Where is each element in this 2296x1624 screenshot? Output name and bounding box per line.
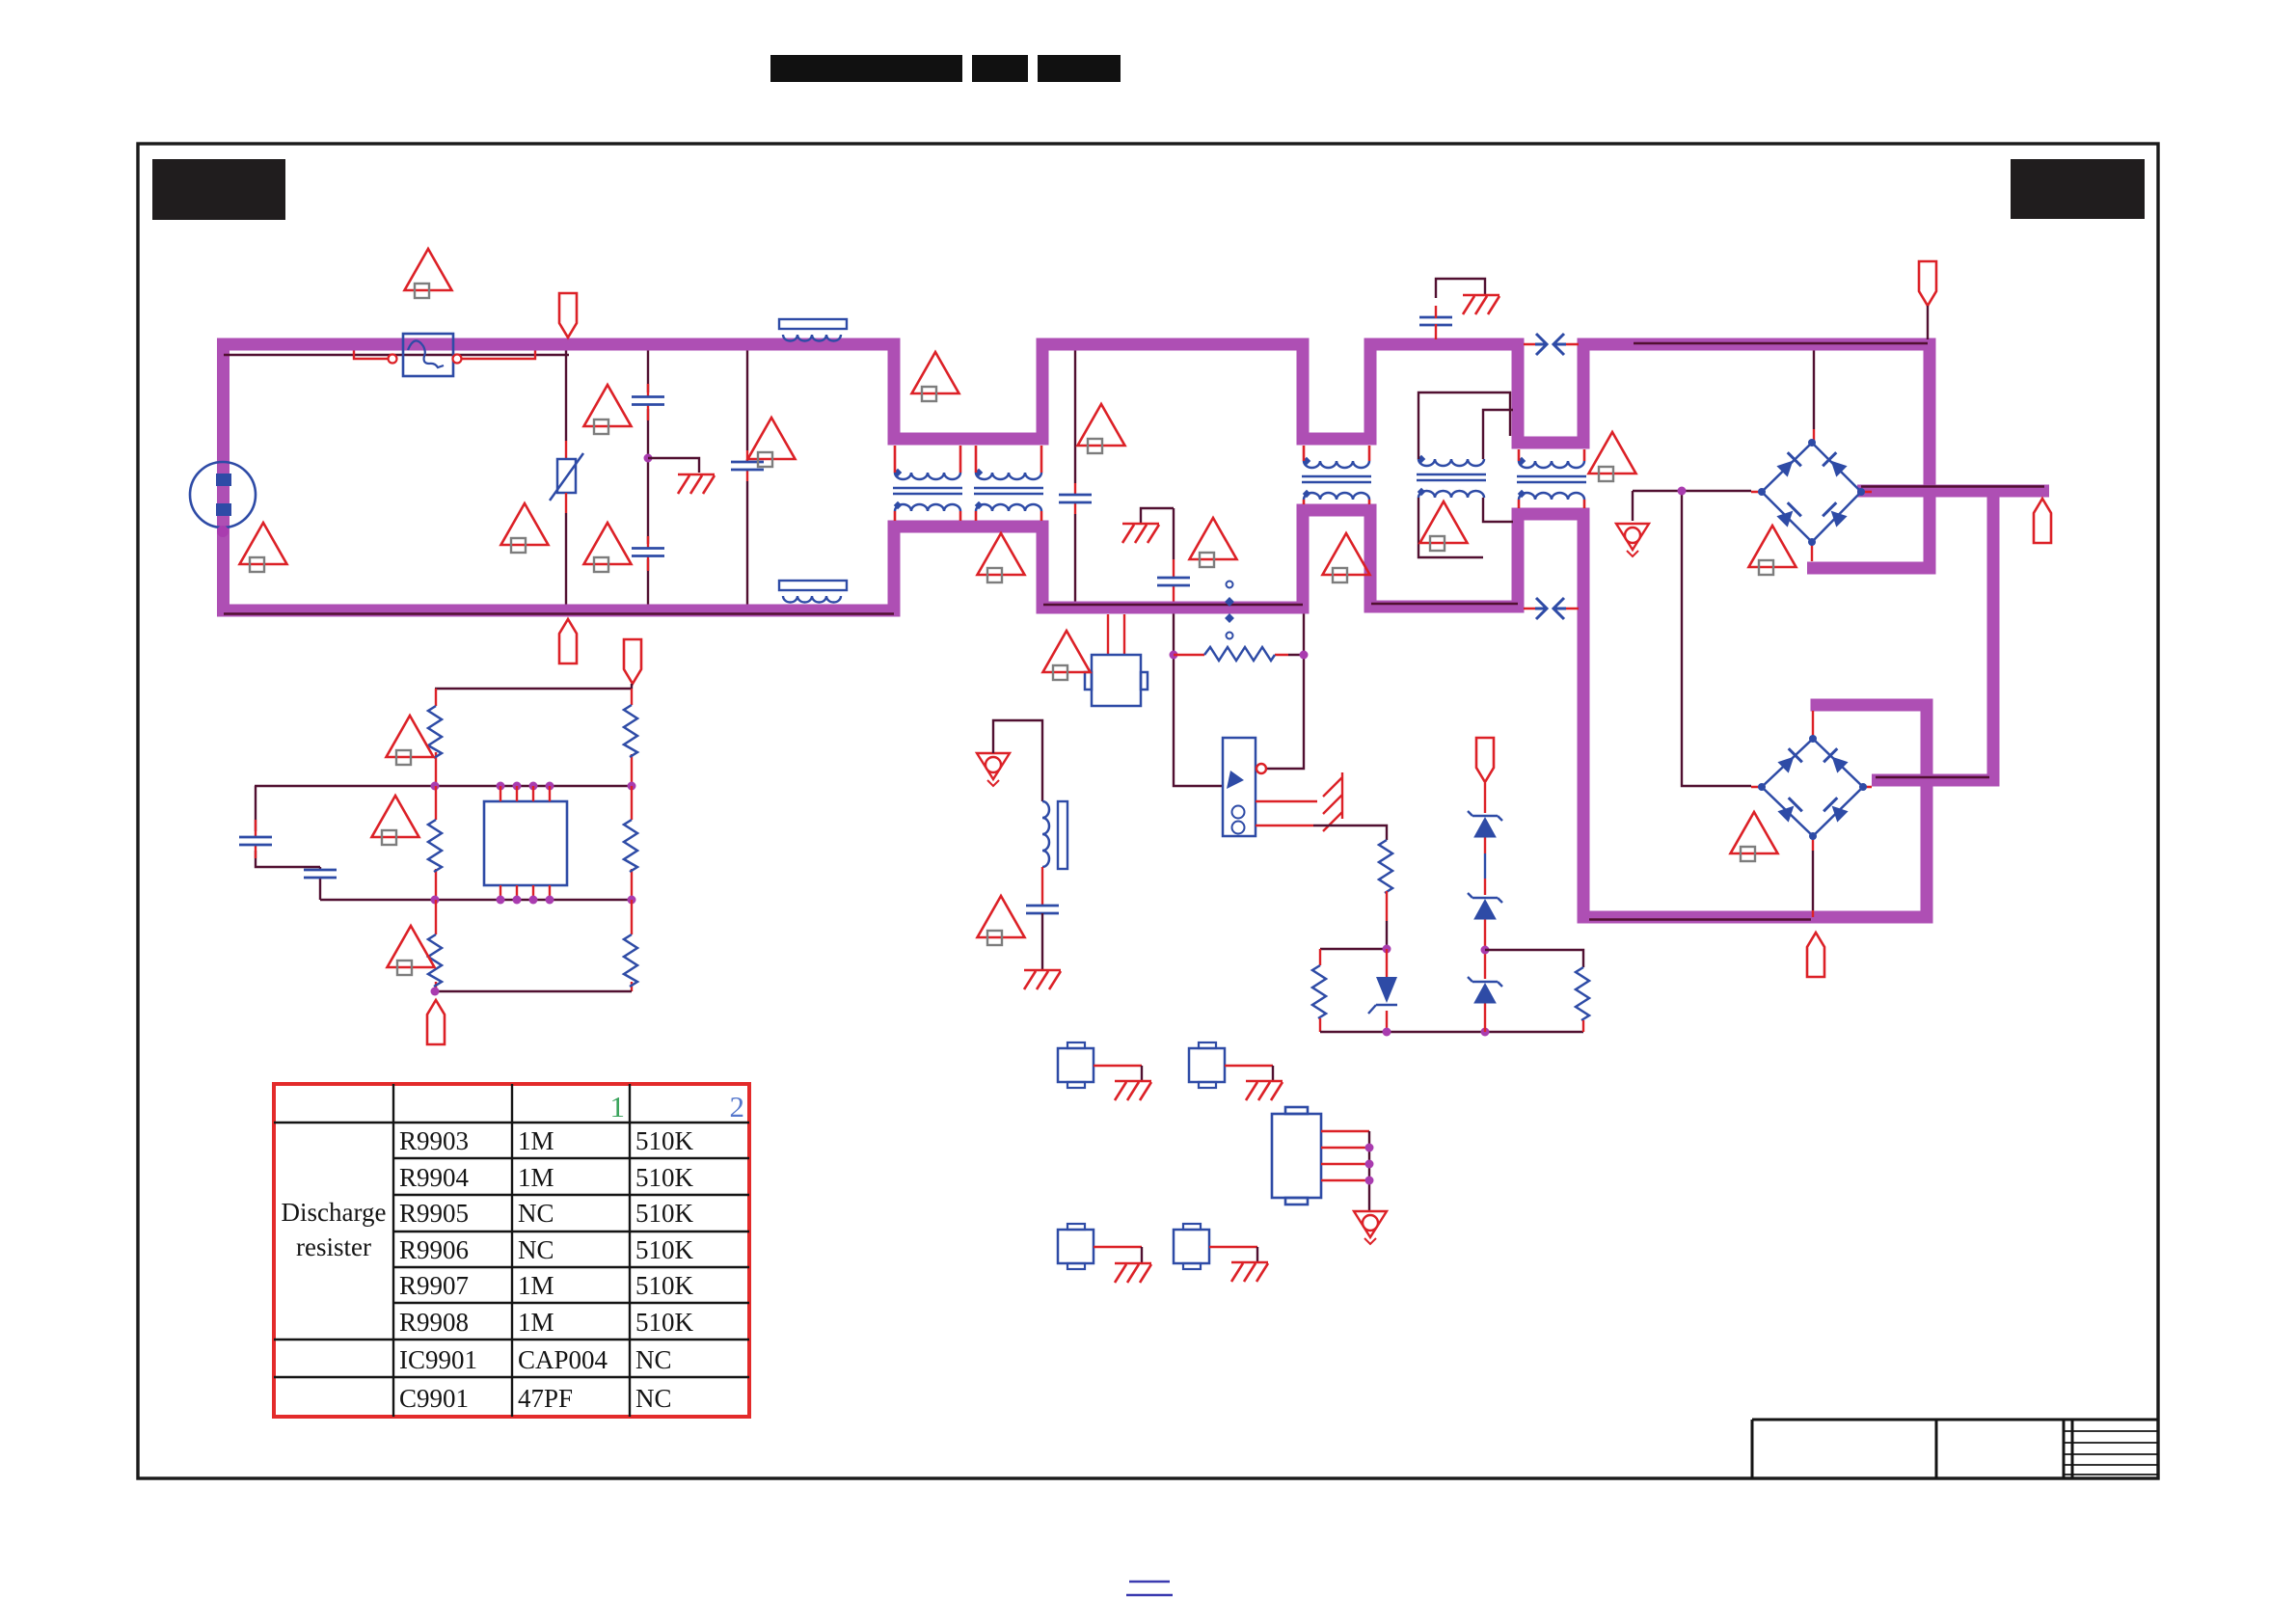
wire SCR anode wire (1320, 921, 1387, 949)
svg-text:1M: 1M (518, 1126, 554, 1155)
warning triangle R9905 (372, 796, 419, 845)
svg-text:R9908: R9908 (399, 1308, 469, 1337)
wire thermistor net left (1174, 614, 1223, 787)
wire block1 bottom bus (217, 605, 901, 617)
svg-text:510K: 510K (635, 1163, 694, 1192)
wire S2 ground lead (1225, 1065, 1273, 1067)
wire choke bar L2-L3 upper (1297, 433, 1377, 446)
wire to chassis ground (648, 458, 699, 473)
diode D9902-4 (1823, 798, 1850, 824)
thyristor SCR9901 (1368, 977, 1397, 1014)
title block right grid (2064, 1431, 2158, 1475)
wire cores (thin conductor lines along the highlighted bus) (224, 343, 2044, 920)
wire zener mid to R9908 (1485, 950, 1583, 967)
earth arrow mid chain (977, 753, 1010, 786)
wire block2 bottom bus (1037, 602, 1310, 614)
earth terminal near bridge1 (1616, 524, 1649, 556)
wire R9906 stub (1319, 949, 1321, 965)
wire S4 ground lead (1209, 1246, 1257, 1248)
ground chassis S1 (1115, 1081, 1151, 1100)
wire R9906b stubs (435, 900, 437, 991)
resistor R9906 (1312, 965, 1326, 1018)
wire varistor stub red upper (565, 441, 567, 459)
wire S3 ground drop (1141, 1247, 1143, 1263)
node SCR top junction (1383, 945, 1391, 954)
svg-text:R9904: R9904 (399, 1163, 470, 1192)
ground chassis S2 (1246, 1081, 1283, 1100)
wire IC cluster rail1 (255, 785, 632, 787)
resistor R9904 (624, 705, 637, 757)
connector pin DC plus rail end (2034, 499, 2051, 543)
wire S2 ground drop (1272, 1066, 1274, 1081)
wire resistor stubs red (1174, 654, 1288, 656)
wire CY3 to ground loop (1436, 279, 1485, 298)
wire T9901 bottom-right lead (1483, 498, 1513, 522)
connector pin above zeners (1476, 738, 1494, 782)
wire block1 right bus upper (888, 338, 901, 440)
wire relay coil stubs (1108, 614, 1124, 655)
svg-text:NC: NC (518, 1199, 554, 1228)
connector pin below block1 bus left (559, 619, 577, 663)
svg-text:resister: resister (296, 1232, 371, 1261)
svg-text:510K: 510K (635, 1308, 694, 1337)
table body text (399, 1126, 694, 1413)
ground chassis S4 (1231, 1262, 1268, 1282)
node zener mid junction (1481, 946, 1490, 955)
wire core block1 bottom (224, 612, 894, 614)
wire block4 right bus (1924, 338, 1936, 575)
wire IC cluster top rail (435, 684, 632, 689)
svg-text:510K: 510K (635, 1271, 694, 1300)
wire block2 ground branch (1141, 508, 1174, 559)
wire bridge2 bottom lead (1812, 851, 1814, 910)
wire choke bar L1-L2 lower (888, 521, 1049, 533)
wire block3 left bus lower (1364, 504, 1377, 613)
diode D9901-3 (1775, 502, 1801, 528)
wire R9905 stubs (435, 786, 437, 900)
node rail1 junctions (431, 782, 636, 791)
svg-text:NC: NC (635, 1345, 672, 1374)
wire resistor right drop (1267, 614, 1304, 770)
wire fuse clip right (462, 351, 535, 360)
redacted title bar 2 (972, 55, 1028, 82)
wire core bridge2 output rail (1876, 776, 1989, 778)
warning triangle near X-cap (584, 523, 632, 572)
wire choke L9902 stubs (976, 446, 1041, 521)
wire DC plus rail (1857, 485, 2049, 498)
svg-text:1M: 1M (518, 1308, 554, 1337)
fuse F9901 element (408, 340, 444, 367)
capacitor C9903 (304, 870, 337, 878)
wire block3 bottom bus (1364, 601, 1525, 613)
warning triangle above fuse (405, 249, 452, 298)
redacted block top-left (152, 159, 285, 220)
resistor R9903 (428, 706, 442, 758)
zener ZD9902 (1468, 893, 1502, 919)
wire photocoupler out2 (1256, 825, 1313, 826)
resistor R9908b (624, 934, 637, 987)
capacitor C mid chain (1026, 906, 1059, 913)
wire block3 left bus upper (1364, 338, 1377, 446)
AC inlet pin N (216, 503, 231, 516)
transformer T9901 (1417, 455, 1486, 498)
wire mid chain cap stub (1041, 867, 1043, 907)
wire photocoupler out1 (1256, 800, 1317, 802)
inductor L9905 (1042, 801, 1049, 867)
connector pin IC cluster bottom (427, 1000, 445, 1044)
svg-text:510K: 510K (635, 1199, 694, 1228)
ground chassis block1 (678, 474, 715, 494)
photocoupler pin terminal (1256, 764, 1266, 773)
wire R9908b stubs (631, 900, 633, 991)
node bottom rail junction (431, 988, 440, 996)
warning triangle R9903 (387, 716, 434, 765)
svg-text:NC: NC (635, 1384, 672, 1413)
bridge D9901 node dots (1758, 439, 1865, 546)
wire bridge2 right bus (1921, 699, 1933, 924)
wire zener mid blue segment (1484, 853, 1486, 879)
wire block2 X-cap red stubs (1074, 483, 1076, 514)
inductor bead top (779, 319, 847, 341)
wire S1 ground lead (1094, 1065, 1142, 1067)
wire bridge2 top bar (1811, 699, 1933, 712)
bridge D9902 node dots (1758, 735, 1867, 840)
wire S1 ground drop (1141, 1066, 1143, 1081)
connector pin top-right (1919, 261, 1936, 306)
warning triangle right of Y-cap (748, 418, 796, 467)
ground chassis block2 (1122, 524, 1159, 543)
wire IC9901 top pins (500, 786, 550, 801)
wire T9901 bottom-left lead (1418, 498, 1483, 557)
wire pin top-right lead (1927, 306, 1929, 339)
wire bridge2 stubs red (1751, 711, 1872, 851)
wire R9908 bottom stub (1582, 1020, 1584, 1032)
table inner black lines (274, 1084, 749, 1417)
switch S4 (1174, 1224, 1209, 1269)
wire block2 left bus upper (1037, 338, 1049, 446)
wire zener stack stubs (1484, 783, 1486, 1032)
wire block4 left bus upper (1578, 338, 1590, 449)
AC mains highlighted bus (purple highlighter path) (217, 338, 2049, 924)
resistor R9908 (1576, 967, 1589, 1020)
drawing frame border (138, 144, 2158, 1478)
wire core DC plus rail (1861, 485, 2044, 487)
wire Y-cap red stubs (746, 450, 748, 481)
diode D9901-1 (1775, 452, 1801, 478)
bridge rectifier D9902 (1762, 739, 1863, 836)
spark gap marker circles (1227, 582, 1233, 639)
wire block4 top bus (1578, 338, 1936, 351)
warning triangle left of varistor (501, 503, 549, 553)
wire mid chain top (993, 720, 1042, 801)
wire bridge1 AC top feed (1813, 351, 1815, 430)
wire varistor stub red lower (565, 493, 567, 513)
svg-text:Discharge: Discharge (282, 1198, 387, 1227)
warning triangle between chokes (978, 533, 1025, 582)
diode D9902-1 (1776, 748, 1802, 774)
ground chassis above block3 (1463, 295, 1499, 314)
node bridge1 minus junction (1678, 487, 1687, 496)
wire core block4 bottom (1589, 918, 1811, 920)
title block (1752, 1420, 2158, 1478)
fuse F9901 body (403, 334, 453, 376)
warning triangle mid chain (978, 896, 1025, 945)
node X-cap junction (644, 454, 653, 463)
warning triangle below choke L9903 (1323, 533, 1370, 582)
resistor R9901 (inrush) (1204, 647, 1275, 661)
wire SCR cathode stubs (1386, 949, 1388, 1032)
wire block3 top bus (1364, 338, 1525, 351)
wire bridge2 bottom stub (1812, 910, 1814, 917)
wire IC9901 bottom pins (500, 885, 550, 900)
photocoupler PC9901 (1223, 738, 1256, 836)
zener ZD9903 (1468, 977, 1502, 1003)
capacitor CX1 lower (632, 549, 664, 556)
wire block1 right bus lower (888, 527, 901, 617)
wire cluster bottom rail (1320, 1031, 1583, 1033)
IC9901 CAP004 (484, 801, 567, 885)
switch S2 (1189, 1042, 1225, 1088)
inductor bead bottom (779, 581, 847, 603)
redacted block top-right (2011, 159, 2145, 219)
warning triangle below bridge1 (1749, 526, 1796, 575)
wire block2 Y-cap red stubs (1173, 559, 1175, 602)
AC inlet connector P1 (190, 462, 256, 528)
wire core block4 top (1634, 342, 1928, 344)
svg-text:CAP004: CAP004 (518, 1345, 608, 1374)
wire fuse clip left (354, 351, 388, 360)
wire T9901 top-right lead (1483, 410, 1513, 459)
wire X-cap branch (647, 351, 649, 605)
capacitor CY3 above block3 (1419, 317, 1452, 325)
ground chassis mid chain (1024, 970, 1061, 989)
wire choke bar L2-L3 lower (1297, 504, 1377, 517)
wire core block3 bottom (1371, 603, 1518, 605)
svg-text:2: 2 (730, 1090, 745, 1123)
table label Discharge resister (282, 1198, 387, 1261)
wire bridge1 stubs red (1751, 429, 1872, 561)
wire Y-cap branch (746, 351, 748, 605)
diode D9901-4 (1823, 502, 1849, 528)
mate connector bottom arrows (1535, 598, 1566, 619)
node AC inlet junction (217, 526, 229, 537)
wire choke bar L1-L2 upper (888, 433, 1049, 446)
redacted title bar 3 (1038, 55, 1121, 82)
common-mode choke L9901 (893, 469, 962, 511)
common-mode choke L9902 (974, 469, 1043, 511)
wire SCR gate net (1313, 826, 1387, 840)
AC inlet pin L (216, 474, 231, 486)
common-mode choke L9904 (1517, 457, 1586, 500)
wire earth drop (1632, 491, 1634, 521)
wire block2 X-cap branch (1074, 351, 1076, 602)
ground chassis S3 (1115, 1263, 1151, 1283)
chassis comb symbol (1323, 772, 1342, 831)
wire block2 right bus upper (1297, 338, 1310, 446)
wire core block2 bottom (1043, 604, 1303, 606)
svg-text:R9907: R9907 (399, 1271, 469, 1300)
warning triangle right of choke L9904 (1589, 432, 1636, 481)
warning triangle block2 lower (1190, 518, 1237, 567)
svg-text:510K: 510K (635, 1235, 694, 1264)
spark gap marker diamonds (1225, 597, 1234, 623)
connector pin below block4 (1807, 933, 1824, 977)
page footer mark (1126, 1582, 1173, 1595)
warning triangle R9906b (388, 926, 435, 975)
capacitor C9902 (239, 837, 272, 845)
inductor L9905 core bar (1058, 801, 1067, 869)
node bottom rail junction 1 (1383, 1028, 1391, 1037)
wire block2 right bus lower (1297, 504, 1310, 614)
warning triangle below bridge2 (1731, 812, 1778, 861)
varistor RV9901 (550, 453, 583, 501)
earth arrow below CN9901 (1354, 1211, 1387, 1244)
zener ZD9901 (1468, 811, 1502, 837)
bridge rectifier D9901 (1762, 443, 1861, 542)
wire choke L9903 stubs (1304, 446, 1369, 504)
wire block1 top bus (217, 338, 901, 351)
capacitor CX1 upper (632, 397, 664, 405)
capacitor CY1 (731, 462, 764, 470)
wire S3 ground lead (1094, 1246, 1142, 1248)
common-mode choke L9903 (1302, 457, 1371, 500)
resistor R9902 (1379, 840, 1392, 893)
wire CY3 red stubs (1435, 306, 1437, 339)
wire IC cluster rail2 (320, 899, 632, 901)
wire core block1 top (224, 354, 569, 356)
wire T9901 top-left lead (1418, 392, 1510, 459)
wire block3 right bus upper (1512, 338, 1525, 449)
capacitor CY2 (1157, 578, 1190, 585)
warning triangle left of AC inlet (240, 523, 287, 572)
capacitor CX2 (1059, 495, 1092, 502)
svg-text:R9905: R9905 (399, 1199, 469, 1228)
warning triangle left of relay (1043, 631, 1091, 680)
wire cap ladder left (256, 786, 320, 900)
mate connector top stubs (1524, 343, 1579, 346)
wire bridge1 output bar (1807, 562, 1936, 575)
svg-text:1M: 1M (518, 1163, 554, 1192)
wire choke L9901 stubs (895, 446, 960, 521)
node resistor right junction (1300, 651, 1309, 660)
resistor R9905 (428, 820, 442, 872)
svg-text:1M: 1M (518, 1271, 554, 1300)
wire block2 top bus (1037, 338, 1310, 351)
fuse clip terminal left (389, 355, 397, 364)
wire bridge2 output rail (1872, 774, 2000, 787)
redacted title bar 1 (770, 55, 962, 82)
switch S3 (1058, 1224, 1094, 1269)
wire block3 right bus lower (1512, 508, 1525, 613)
warning triangle block2 upper (1078, 404, 1125, 453)
svg-text:C9901: C9901 (399, 1384, 469, 1413)
connector CN9901 (1272, 1107, 1321, 1204)
relay RY9901 (1085, 655, 1148, 706)
wire CN9901 pin bus (1368, 1131, 1370, 1211)
wire cap ladder red stubs (255, 820, 257, 858)
warning triangle right of block1 top corner (912, 352, 959, 401)
connector pin IC cluster top (624, 639, 641, 684)
wire IC cluster bottom rail (435, 990, 632, 992)
diode D9902-2 (1823, 748, 1850, 774)
node thermistor left junction (1170, 651, 1178, 660)
wire choke bar L3-L4 upper (1512, 437, 1590, 449)
fuse clip terminal right (453, 355, 462, 364)
diode D9902-3 (1776, 798, 1802, 824)
wire block4 left bus lower (1578, 508, 1590, 924)
wire DC rail right drop (1987, 485, 2000, 787)
wire R9906 bottom stub (1319, 1018, 1321, 1032)
svg-text:510K: 510K (635, 1126, 694, 1155)
svg-text:IC9901: IC9901 (399, 1345, 477, 1374)
mate connector top arrows (1535, 334, 1566, 355)
wire R9907 stubs (631, 786, 633, 900)
photocoupler transistor marks (1232, 806, 1245, 834)
svg-text:47PF: 47PF (518, 1384, 573, 1413)
resistor R9907 (624, 820, 637, 872)
wire CN9901 pins (1321, 1131, 1369, 1180)
node CN9901 pin junctions (1365, 1144, 1374, 1185)
mate connector bottom stubs (1524, 608, 1579, 610)
wire R9902 lower stub (1386, 891, 1388, 921)
wire S4 ground drop (1256, 1247, 1258, 1262)
wire varistor branch lower (565, 513, 567, 605)
wire R9904 stubs (631, 689, 633, 786)
connector pin TP above block1 (559, 293, 577, 338)
svg-text:1: 1 (610, 1090, 626, 1123)
wire mid chain ground lead (1041, 913, 1043, 970)
wire block4 bottom bus (1578, 911, 1933, 924)
wire varistor branch upper (565, 351, 567, 442)
warning triangle inside block3 (1420, 501, 1468, 551)
wire choke L9904 stubs (1519, 449, 1584, 508)
svg-text:R9903: R9903 (399, 1126, 469, 1155)
diode D9901-2 (1823, 452, 1849, 478)
svg-text:NC: NC (518, 1235, 554, 1264)
svg-text:R9906: R9906 (399, 1235, 469, 1264)
wire bridge1 minus lead (1633, 491, 1751, 786)
warning triangle above varistor (584, 385, 632, 434)
node bottom rail junction 2 (1481, 1028, 1490, 1037)
wire block2 left bus lower (1037, 521, 1049, 614)
photocoupler LED arrow (1227, 771, 1244, 789)
discharge resistor table red border (274, 1084, 749, 1417)
node rail2 junctions (431, 896, 636, 905)
wire choke bar L3-L4 lower (1512, 508, 1590, 521)
wire R9903 stubs (435, 689, 437, 786)
wire X-cap red stubs (647, 384, 649, 571)
resistor R9906b (428, 934, 442, 987)
switch S1 (1058, 1042, 1094, 1088)
wire block1 left bus (217, 338, 230, 617)
